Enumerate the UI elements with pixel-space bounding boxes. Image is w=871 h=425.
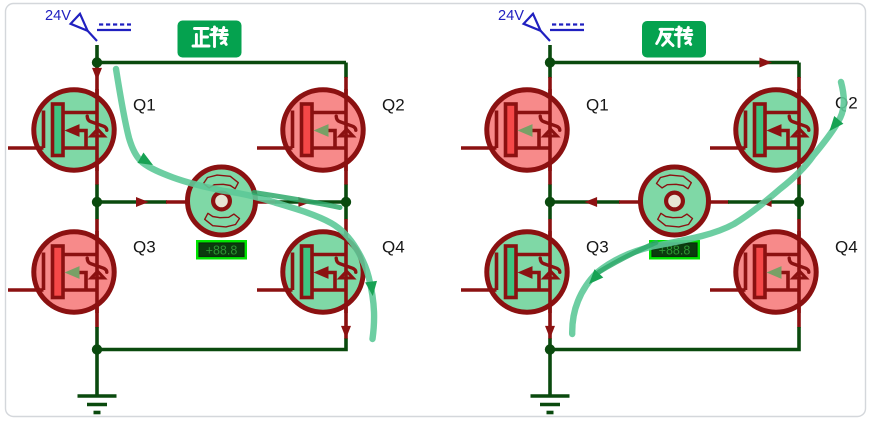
junction node top left xyxy=(92,57,102,67)
wire: left rail green stub top (right) xyxy=(548,63,552,79)
transistor Q1 (on) xyxy=(8,89,114,171)
green button label 正转 xyxy=(178,21,242,58)
junction node mid right xyxy=(341,197,351,207)
voltmeter display left xyxy=(197,241,246,258)
wire: top rail left circuit xyxy=(97,45,346,63)
svg-text:Q4: Q4 xyxy=(382,238,405,257)
wire: left rail red upper segment (right) xyxy=(548,77,552,185)
motor M right xyxy=(641,167,709,235)
ground right xyxy=(531,350,570,413)
wire: left rail green stub bottom (right) xyxy=(548,339,552,350)
power supply 24V left xyxy=(45,8,131,41)
current arrow left on mid rail right (right) xyxy=(759,197,772,207)
flow overlap band left circuit xyxy=(254,193,340,208)
flow arrow upper right circuit xyxy=(825,116,844,135)
current arrow left on mid rail left (right) xyxy=(585,197,598,207)
wire: right rail red lower segment (right) xyxy=(797,219,801,328)
wire: right rail green stub bottom (right) xyxy=(550,327,799,350)
wire: motor lead right (right) xyxy=(708,200,729,204)
transistor Q2 (off) xyxy=(257,89,363,171)
wire: motor lead left (right) xyxy=(619,200,641,204)
junction node mid left (right) xyxy=(545,197,555,207)
wire: mid rail left green xyxy=(97,200,167,204)
wire: right rail green mid stub xyxy=(344,185,348,220)
wire: right rail green mid stub (right) xyxy=(797,185,801,220)
wire: right rail red upper segment xyxy=(344,77,348,185)
wire: right rail green stub top (right) xyxy=(797,63,801,79)
flow overlap band right circuit xyxy=(599,243,656,273)
wire: motor lead left xyxy=(166,200,188,204)
wire: left rail green stub bottom xyxy=(95,327,99,350)
wire: left rail green mid stub xyxy=(95,185,99,220)
svg-text:Q1: Q1 xyxy=(586,96,609,115)
transistor Q3 right circuit (on) xyxy=(461,231,567,313)
junction node bottom left (right) xyxy=(545,344,555,354)
voltmeter display right xyxy=(650,241,699,258)
wire: motor lead right xyxy=(255,200,276,204)
flow arrow lower right circuit xyxy=(585,269,604,288)
junction node bottom left xyxy=(92,344,102,354)
junction node mid right (right) xyxy=(794,197,804,207)
green button label 反转 xyxy=(642,21,706,58)
current arrow right on mid rail left xyxy=(136,197,149,207)
transistor Q3 (off) xyxy=(8,231,114,313)
junction node mid left xyxy=(92,197,102,207)
junction node top left (right) xyxy=(545,57,555,67)
current arrow right on top rail (right) xyxy=(759,58,772,68)
wire: right rail green stub top xyxy=(344,63,348,79)
flow arrow mid left circuit xyxy=(137,153,156,171)
wire: left rail red upper segment xyxy=(95,63,99,186)
wire: right rail red lower segment xyxy=(344,219,348,339)
current arrow down below top node xyxy=(92,68,102,81)
motor M left xyxy=(188,167,256,235)
current arrow down above bottom left node (right) xyxy=(545,326,555,339)
wire: right rail red upper segment (right) xyxy=(797,77,801,185)
wire: mid rail right green (right) xyxy=(728,200,799,204)
power supply 24V right xyxy=(498,8,584,41)
wire: mid rail right green xyxy=(275,200,346,204)
svg-text:Q3: Q3 xyxy=(586,238,609,257)
wire: right rail green stub bottom xyxy=(97,339,346,350)
wire: left rail red lower segment xyxy=(95,219,99,328)
wire: left rail red lower segment (right) xyxy=(548,219,552,339)
current flow path left circuit xyxy=(116,69,379,339)
svg-text:Q2: Q2 xyxy=(382,96,405,115)
flow arrow lower left circuit xyxy=(365,281,379,297)
transistor Q2 right circuit (on) xyxy=(710,89,816,171)
current arrow down above bottom right corner xyxy=(341,326,351,339)
current arrow right on mid rail right xyxy=(298,197,311,207)
svg-text:Q3: Q3 xyxy=(133,238,156,257)
current flow path right circuit xyxy=(572,82,844,334)
ground left xyxy=(78,350,117,413)
svg-text:Q4: Q4 xyxy=(835,238,858,257)
wire: top rail right circuit xyxy=(550,45,799,63)
transistor Q4 (on) xyxy=(257,231,363,313)
wire: mid rail left green (right) xyxy=(550,200,620,204)
svg-text:Q1: Q1 xyxy=(133,96,156,115)
wire: left rail green mid stub (right) xyxy=(548,185,552,220)
transistor Q4 right circuit (off) xyxy=(710,231,816,313)
transistor Q1 right circuit (off) xyxy=(461,89,567,171)
